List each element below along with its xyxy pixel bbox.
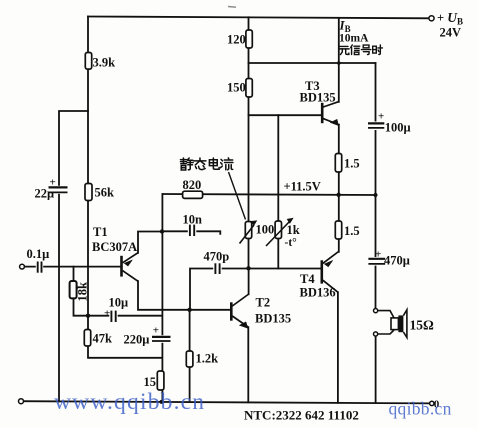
transistor T2 BD135 (NPN)	[231, 294, 249, 328]
resistor R 820	[183, 191, 203, 198]
wire output vertical 100u/470u	[375, 63, 377, 309]
wire 22u branch jog and vertical	[59, 111, 88, 402]
resistor R 150	[246, 79, 252, 98]
capacitor C 470p	[213, 263, 222, 276]
svg-text:BC307A: BC307A	[92, 240, 137, 254]
wire T1 emitter riser	[138, 232, 162, 253]
wire IB line / T3 collector drop	[338, 18, 340, 102]
resistor R 47k	[84, 330, 90, 347]
wire T2 emitter drop	[247, 327, 249, 402]
junction dot 820/10n/T1e node	[160, 229, 164, 233]
resistor R 1.2k	[186, 351, 193, 367]
svg-text:10mA: 10mA	[339, 33, 369, 45]
wire 18k branch	[74, 267, 89, 316]
capacitor C 470u electrolytic	[367, 257, 386, 266]
transistor T3 BD135 (NPN)	[322, 102, 340, 126]
wire top supply rail	[88, 17, 431, 19]
svg-text:+11.5V: +11.5V	[284, 180, 321, 194]
CJK glyph hao	[361, 45, 370, 54]
svg-text:+: +	[50, 177, 56, 189]
svg-text:24V: 24V	[440, 26, 462, 40]
resistor R 15	[157, 371, 164, 390]
junction dot 470p/T2c/T4b node	[246, 266, 250, 270]
junction dot mid rail / 1.5 resistors	[336, 193, 340, 197]
transistor T4 BD136 (PNP)	[322, 252, 339, 293]
wire thermistor branch vertical	[277, 115, 279, 268]
svg-text:3.9k: 3.9k	[93, 56, 116, 70]
transistor T1 BC307A (PNP)	[122, 253, 139, 282]
thermistor R 1k body	[275, 221, 281, 239]
svg-text:+: +	[375, 249, 381, 261]
CJK glyph wu	[339, 46, 349, 54]
resistor R 56k	[85, 184, 92, 201]
wire 1.2k branch vertical	[189, 310, 191, 402]
svg-text:56k: 56k	[95, 186, 115, 200]
capacitor C 220u electrolytic	[151, 335, 172, 343]
svg-text:1.5: 1.5	[344, 157, 360, 171]
svg-text:0.1μ: 0.1μ	[27, 247, 50, 261]
junction dot 15 resistor at bottom rail	[160, 400, 164, 404]
CJK glyph dian	[209, 158, 219, 169]
junction dot cross link at IB line	[337, 61, 341, 65]
svg-text:820: 820	[183, 178, 202, 192]
svg-text:NTC:2322 642 11102: NTC:2322 642 11102	[244, 408, 359, 423]
wire input line	[24, 266, 120, 268]
CJK glyph tai	[194, 158, 206, 170]
svg-text:+: +	[378, 111, 384, 123]
svg-text:BD135: BD135	[300, 91, 336, 105]
svg-text:+: +	[104, 307, 110, 319]
wire T4 collector drop	[337, 292, 339, 403]
resistor R 3.9k	[85, 53, 91, 70]
junction dot T1c/T2b/1.2k/470p node	[187, 308, 191, 312]
svg-text:-t°: -t°	[285, 237, 298, 249]
svg-text:T4: T4	[300, 272, 315, 286]
wire T1 collector to T2 base	[138, 281, 230, 310]
wire speaker lower drop	[375, 336, 377, 403]
wire cross link y63	[249, 62, 376, 64]
svg-text:18k: 18k	[76, 282, 90, 302]
resistor R 18k	[70, 281, 77, 298]
terminal bottom right	[430, 401, 434, 405]
svg-text:T2: T2	[256, 296, 271, 310]
wire T3 base link	[249, 114, 322, 116]
svg-text:220μ: 220μ	[124, 333, 150, 347]
svg-text:15Ω: 15Ω	[410, 318, 435, 333]
svg-text:470μ: 470μ	[384, 254, 410, 268]
svg-text:10μ: 10μ	[109, 296, 129, 310]
wire 470p line to T4 base	[190, 269, 321, 310]
potentiometer R 100 arrow	[240, 221, 257, 244]
capacitor C 10u	[109, 310, 118, 323]
wire 10n line with end hook	[162, 231, 220, 234]
capacitor C 0.1u	[36, 260, 43, 274]
svg-text:+ UB: + UB	[437, 10, 463, 27]
wire mid vertical through 220u and 15	[161, 194, 163, 402]
svg-text:22μ: 22μ	[35, 187, 55, 201]
svg-text:+: +	[153, 325, 159, 337]
junction dot 18k/56k/10u node	[86, 314, 90, 318]
wire 10u feedback wire	[88, 315, 162, 317]
svg-text:qqibb.cn: qqibb.cn	[389, 399, 452, 419]
capacitor C 100u electrolytic	[367, 122, 386, 131]
svg-text:1k: 1k	[287, 223, 300, 237]
svg-text:120: 120	[227, 33, 246, 47]
terminal speaker lower	[374, 332, 378, 336]
terminal speaker upper	[374, 309, 378, 313]
wire T3 emitter chain through 1.5 resistors	[338, 125, 340, 252]
CJK glyph shi	[373, 45, 383, 55]
terminal +UB top right	[429, 16, 434, 21]
wire +11.5V mid rail	[162, 194, 375, 195]
svg-text:100μ: 100μ	[385, 121, 411, 135]
wire center vertical (120/150/pot line)	[248, 17, 250, 268]
svg-text:15: 15	[144, 375, 157, 389]
svg-text:47k: 47k	[93, 332, 113, 346]
svg-text:T1: T1	[93, 225, 108, 239]
svg-text:10n: 10n	[183, 213, 203, 227]
speaker 15 ohm	[378, 310, 407, 338]
speck top	[228, 6, 236, 9]
leader line from jing-tai-dian-liu label to pot	[229, 172, 246, 220]
potentiometer R 100 body	[245, 222, 251, 239]
svg-text:100: 100	[256, 223, 275, 237]
svg-text:1.5: 1.5	[344, 224, 360, 238]
CJK glyph xin	[351, 45, 360, 55]
svg-text:BD136: BD136	[300, 286, 336, 300]
resistor R 1.5 upper	[335, 154, 341, 173]
svg-text:470p: 470p	[204, 250, 230, 264]
thermistor R 1k arrow	[266, 218, 293, 246]
CJK glyph jing	[181, 158, 194, 170]
svg-text:www.qqibb.cn: www.qqibb.cn	[54, 389, 205, 415]
wire bottom rail	[21, 401, 432, 403]
junction dot mid rail / output line	[374, 193, 378, 197]
wire left bias chain vertical (3.9k/56k/47k line)	[88, 17, 161, 358]
resistor R 1.5 lower	[335, 221, 341, 239]
capacitor C 22u electrolytic	[47, 186, 69, 194]
svg-text:BD135: BD135	[255, 312, 291, 326]
svg-text:1.2k: 1.2k	[196, 352, 219, 366]
CJK glyph liu	[221, 158, 233, 170]
capacitor C 10n	[188, 224, 197, 238]
svg-text:150: 150	[227, 81, 246, 95]
terminal input	[20, 264, 25, 269]
resistor R 120	[246, 30, 252, 48]
wire T2 collector riser	[248, 268, 250, 294]
terminal bottom-left	[19, 399, 24, 404]
